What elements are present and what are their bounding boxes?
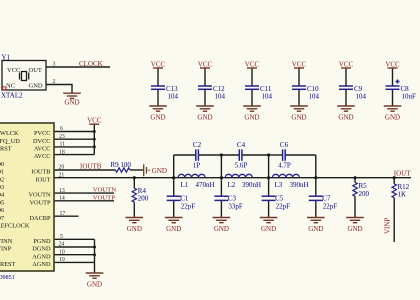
svg-text:21: 21 — [59, 172, 65, 178]
svg-text:GND: GND — [347, 225, 362, 233]
svg-text:104: 104 — [215, 93, 226, 101]
svg-text:R9 100: R9 100 — [111, 161, 132, 169]
svg-text:D5: D5 — [0, 199, 4, 206]
svg-text:DGND: DGND — [32, 246, 51, 253]
svg-text:D3: D3 — [0, 184, 4, 191]
svg-text:104: 104 — [309, 93, 320, 101]
svg-text:IOUT: IOUT — [35, 176, 50, 183]
svg-text:4.7P: 4.7P — [278, 161, 291, 169]
svg-text:10uF: 10uF — [402, 93, 417, 101]
svg-text:AVCC: AVCC — [34, 153, 51, 160]
svg-text:104: 104 — [356, 93, 367, 101]
svg-text:C7: C7 — [322, 195, 331, 203]
svg-text:IOUTB: IOUTB — [31, 169, 50, 176]
svg-text:GND: GND — [291, 114, 306, 122]
svg-text:22pF: 22pF — [276, 202, 291, 210]
svg-text:24: 24 — [59, 242, 65, 248]
svg-text:22pF: 22pF — [181, 202, 196, 210]
svg-text:GND: GND — [166, 225, 181, 233]
svg-text:VCC: VCC — [87, 117, 102, 125]
svg-text:DACBP: DACBP — [30, 215, 51, 222]
svg-text:AGND: AGND — [32, 261, 51, 268]
svg-text:18: 18 — [59, 149, 65, 155]
svg-text:470nH: 470nH — [196, 181, 215, 189]
svg-text:C2: C2 — [193, 141, 202, 149]
svg-text:FQ_UD: FQ_UD — [0, 138, 20, 145]
svg-text:XTAL2: XTAL2 — [1, 92, 23, 100]
svg-text:C4: C4 — [237, 141, 246, 149]
svg-text:VOUTN: VOUTN — [28, 192, 50, 199]
svg-text:10: 10 — [59, 249, 65, 255]
svg-text:17: 17 — [60, 211, 66, 217]
svg-text:11: 11 — [60, 142, 66, 148]
svg-text:WLCK: WLCK — [0, 130, 19, 137]
svg-text:VCC: VCC — [198, 60, 213, 68]
svg-text:C1: C1 — [180, 195, 189, 203]
svg-text:L1: L1 — [181, 181, 189, 189]
svg-text:RST: RST — [0, 146, 12, 153]
svg-text:104: 104 — [168, 93, 179, 101]
svg-text:6: 6 — [60, 126, 63, 132]
svg-text:390nH: 390nH — [290, 181, 309, 189]
svg-text:20: 20 — [59, 165, 65, 171]
svg-text:200: 200 — [359, 190, 370, 198]
svg-text:VCC: VCC — [151, 60, 166, 68]
svg-text:IOUT: IOUT — [394, 170, 411, 178]
svg-text:C6: C6 — [280, 141, 289, 149]
svg-text:19: 19 — [59, 257, 65, 263]
svg-text:VOUTN: VOUTN — [93, 187, 117, 194]
svg-text:22pF: 22pF — [323, 202, 338, 210]
svg-text:D6: D6 — [0, 207, 4, 214]
svg-text:AGND: AGND — [32, 253, 51, 260]
svg-text:GND: GND — [338, 114, 353, 122]
svg-text:GND: GND — [244, 114, 259, 122]
svg-text:GND: GND — [29, 82, 43, 89]
svg-text:NC: NC — [6, 82, 15, 89]
svg-text:GND: GND — [214, 225, 229, 233]
svg-text:VCC: VCC — [245, 60, 260, 68]
svg-text:2: 2 — [53, 79, 56, 85]
svg-text:5: 5 — [60, 234, 63, 240]
svg-text:VOUTP: VOUTP — [30, 199, 51, 206]
svg-text:GND: GND — [87, 281, 102, 289]
svg-text:VINN: VINN — [0, 238, 13, 245]
svg-text:1K: 1K — [398, 191, 407, 199]
svg-text:VCC: VCC — [7, 67, 20, 74]
svg-text:VINP: VINP — [0, 246, 12, 253]
svg-text:GND: GND — [152, 167, 167, 175]
svg-text:D7: D7 — [0, 215, 4, 222]
svg-text:PVCC: PVCC — [34, 130, 50, 137]
svg-text:Y1: Y1 — [2, 54, 11, 62]
svg-text:GND: GND — [64, 99, 79, 107]
svg-text:VCC: VCC — [339, 60, 354, 68]
svg-text:GND: GND — [308, 225, 323, 233]
svg-text:1P: 1P — [193, 161, 201, 169]
svg-text:GND: GND — [385, 114, 400, 122]
svg-text:REFCLOCK: REFCLOCK — [0, 223, 30, 230]
svg-text:3: 3 — [53, 62, 56, 68]
svg-text:L3: L3 — [275, 181, 283, 189]
svg-text:GND: GND — [197, 114, 212, 122]
svg-text:GND: GND — [150, 114, 165, 122]
svg-text:14: 14 — [59, 196, 65, 202]
svg-text:33pF: 33pF — [228, 202, 243, 210]
svg-text:13: 13 — [59, 188, 65, 194]
svg-text:DVCC: DVCC — [33, 138, 51, 145]
svg-text:D0: D0 — [0, 161, 4, 168]
svg-text:GND: GND — [261, 225, 276, 233]
svg-text:VOUTP: VOUTP — [93, 194, 116, 201]
svg-text:C3: C3 — [228, 195, 237, 203]
svg-text:5.6P: 5.6P — [235, 161, 248, 169]
svg-text:VCC: VCC — [385, 60, 400, 68]
svg-text:D1: D1 — [0, 169, 4, 176]
svg-text:23: 23 — [59, 134, 65, 140]
svg-text:VINP: VINP — [384, 218, 392, 234]
svg-text:R5: R5 — [359, 182, 368, 190]
svg-text:GND: GND — [127, 225, 142, 233]
svg-text:104: 104 — [262, 93, 273, 101]
svg-text:L2: L2 — [228, 181, 236, 189]
svg-text:PGND: PGND — [33, 238, 51, 245]
svg-text:D2: D2 — [0, 176, 4, 183]
svg-text:CLOCK: CLOCK — [79, 60, 103, 68]
svg-text:AD9851: AD9851 — [0, 275, 15, 281]
svg-text:AVCC: AVCC — [34, 146, 51, 153]
svg-text:390nH: 390nH — [242, 181, 261, 189]
svg-text:C5: C5 — [275, 195, 284, 203]
svg-text:200: 200 — [138, 195, 149, 203]
svg-text:VCC: VCC — [292, 60, 307, 68]
svg-text:REST: REST — [0, 261, 16, 268]
svg-text:OUT: OUT — [29, 67, 42, 74]
svg-text:IOUTB: IOUTB — [80, 163, 102, 171]
